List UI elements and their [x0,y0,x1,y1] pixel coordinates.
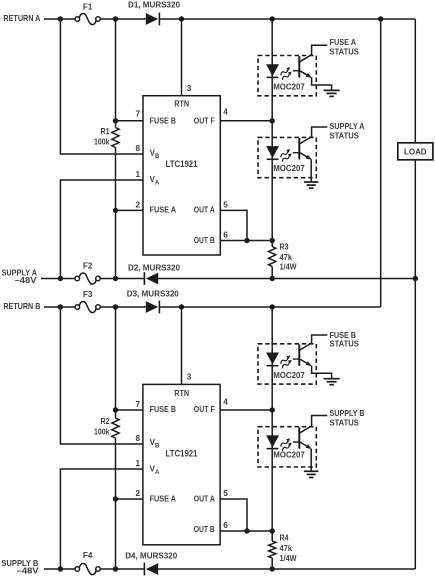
node SUPPLY B label [1,559,39,576]
resistor R4 [269,534,297,563]
junction dots on SUPPLY B rail [58,566,275,571]
light coupling arrows [279,148,293,162]
svg-text:MOC207: MOC207 [273,82,305,91]
svg-text:FUSE A: FUSE A [150,205,177,214]
optocoupler U3 MOC207 [258,121,365,188]
diode D4 MURS320 [125,551,177,575]
status output label FUSE B [330,330,360,349]
wire pin 6 OUT B (U4) [220,530,272,532]
wire RTN pin 3 (U4) [181,307,183,384]
wire SUPPLY A rail [41,278,415,280]
phototransistor [293,45,328,77]
svg-text:100k: 100k [94,137,110,146]
LED [266,353,279,366]
wire pin 5 OUT A jog (U4) [220,499,247,531]
emitter wire [312,366,332,379]
svg-text:D1, MURS320: D1, MURS320 [128,1,180,10]
svg-text:FUSE B: FUSE B [150,116,177,125]
svg-text:MOC207: MOC207 [273,451,305,460]
svg-text:D3, MURS320: D3, MURS320 [127,289,179,298]
svg-text:6: 6 [223,521,228,530]
svg-text:1/4W: 1/4W [280,263,297,272]
resistor R1 [94,127,119,148]
svg-text:D4, MURS320: D4, MURS320 [125,551,177,560]
svg-text:VB: VB [150,149,160,161]
svg-text:VA: VA [150,175,160,187]
svg-text:1: 1 [135,170,140,179]
svg-text:LOAD: LOAD [404,147,427,156]
emitter wire [310,449,312,471]
status output label SUPPLY B [330,408,365,428]
wire VA (pin 1) of U4 to SUPPLY B [60,469,142,569]
phototransistor [293,416,328,449]
status output label FUSE A [330,37,360,57]
junction OUT F node [270,118,275,123]
svg-text:OUT B: OUT B [194,525,215,534]
svg-text:SUPPLY B: SUPPLY B [330,408,365,418]
svg-text:LTC1921: LTC1921 [166,448,198,458]
ground [324,379,340,385]
diode D3 MURS320 [127,289,179,313]
svg-text:OUT A: OUT A [194,495,215,504]
svg-text:VB: VB [150,438,160,450]
svg-text:RTN: RTN [174,389,189,398]
svg-text:STATUS: STATUS [330,418,360,428]
svg-text:4: 4 [223,108,228,117]
wire RETURN B to VB (pin 8) of U4 [60,307,142,444]
LED [266,146,279,159]
svg-text:RETURN A: RETURN A [3,14,40,23]
junction OUT A/OUT B tie (U4) [244,528,249,533]
wire pin 5 OUT A jog [220,210,247,240]
svg-text:RTN: RTN [174,99,189,108]
svg-text:RETURN B: RETURN B [3,302,40,311]
svg-text:5: 5 [223,489,228,498]
svg-text:8: 8 [135,434,140,443]
svg-text:4: 4 [223,398,228,407]
emitter wire [312,77,332,90]
optocoupler U5 MOC207 [258,330,359,385]
dashed package outline [258,56,316,96]
wire pin 4 OUT F (U4) [220,409,272,411]
svg-text:3: 3 [187,373,192,382]
svg-text:R3: R3 [280,243,289,252]
svg-text:R4: R4 [280,534,289,543]
resistor R2 [94,417,119,438]
wire RETURN A to VB (pin 8) [60,19,143,154]
svg-text:FUSE A: FUSE A [150,495,177,504]
wire pin 2 FUSE A [116,209,144,211]
resistor R3 [269,243,297,272]
ground [304,471,319,477]
svg-text:2: 2 [135,200,140,209]
svg-text:2: 2 [135,489,140,498]
svg-text:FUSE A: FUSE A [330,37,357,47]
optocoupler U6 MOC207 [258,408,365,478]
wire RETURN A rail [44,18,415,20]
fuse F1 [75,3,100,25]
svg-text:47k: 47k [280,253,293,262]
junction OUT A/OUT B tie [244,238,249,243]
wire fuse-B sense vertical [115,19,117,279]
svg-text:7: 7 [135,110,140,119]
junction dots on RETURN A rail [58,16,384,21]
wire pin 6 OUT B [220,240,272,242]
svg-text:OUT F: OUT F [194,405,215,414]
junction pin 2 [113,208,118,213]
svg-text:R1: R1 [101,127,110,136]
wire status LED chain (bottom half) [271,307,273,569]
junction pin 7 [113,118,118,123]
phototransistor [293,127,328,159]
op-amp U1 LTC1921 [135,84,228,255]
wire pin 7 FUSE B (U4) [116,409,143,411]
ground [304,182,319,188]
wire RTN pin 3 [181,19,183,96]
status output label SUPPLY A [330,121,365,140]
junction pin 7 (U4) [113,407,118,412]
wire pin 2 FUSE A (U4) [116,498,143,500]
svg-text:OUT F: OUT F [194,116,215,125]
svg-text:3: 3 [187,84,192,93]
optocoupler U2 MOC207 [258,37,359,97]
dashed package outline [258,344,316,384]
wire pin 7 FUSE B [116,120,144,122]
svg-text:LTC1921: LTC1921 [166,159,198,169]
junction dots on SUPPLY A rail [58,276,418,281]
svg-text:F4: F4 [83,551,93,560]
wire SUPPLY B rail [44,568,415,570]
svg-text:F2: F2 [83,261,93,270]
emitter wire [310,159,312,181]
dashed package outline [258,137,316,177]
svg-text:OUT A: OUT A [194,205,215,214]
svg-text:6: 6 [223,231,228,240]
dashed package outline [258,427,316,467]
phototransistor [293,335,328,366]
node SUPPLY A label [2,269,38,285]
LED [266,64,279,77]
svg-text:1/4W: 1/4W [280,554,297,563]
svg-text:8: 8 [135,144,140,153]
svg-text:F3: F3 [83,290,93,299]
svg-text:FUSE B: FUSE B [150,405,177,414]
svg-text:F1: F1 [83,3,93,12]
wire RETURN B rail [44,306,381,308]
wire fuse-B sense vertical (bottom) [115,307,117,569]
fuse F4 [75,551,100,575]
wire VA (pin 1) to SUPPLY A [60,180,143,279]
svg-text:STATUS: STATUS [330,130,360,140]
svg-text:5: 5 [223,200,228,209]
fuse F2 [75,261,100,284]
fuse F3 [75,290,100,313]
light coupling arrows [279,66,293,80]
diode D1 MURS320 [128,1,180,26]
light coupling arrows [279,437,293,451]
svg-text:STATUS: STATUS [330,339,360,349]
wire pin 4 OUT F [220,120,272,122]
svg-text:7: 7 [135,400,140,409]
svg-text:D2, MURS320: D2, MURS320 [128,263,180,272]
wire RETURN B feed vertical [380,19,382,307]
junction OUT B node (U4) [270,528,275,533]
svg-text:100k: 100k [94,427,110,436]
junction OUT F node (U4) [270,407,275,412]
junction OUT B node [270,238,275,243]
junction pin 2 (U4) [113,496,118,501]
svg-text:R2: R2 [101,417,110,426]
svg-text:–48V: –48V [15,276,38,285]
wire load branch vertical [414,19,416,569]
diode D2 MURS320 [128,263,180,285]
svg-text:MOC207: MOC207 [273,371,305,380]
svg-text:VA: VA [150,465,160,477]
ground [324,90,340,96]
svg-text:STATUS: STATUS [330,47,360,57]
junction dots on RETURN B rail [58,304,275,309]
svg-text:MOC207: MOC207 [273,164,305,173]
light coupling arrows [279,354,293,368]
op-amp U4 LTC1921 [135,373,228,545]
svg-text:OUT B: OUT B [194,236,215,245]
LED [266,435,279,448]
svg-text:1: 1 [135,459,140,468]
wire status LED chain (top half) [271,19,273,279]
svg-text:–48V: –48V [17,567,40,576]
load block LOAD [398,143,433,160]
svg-text:47k: 47k [280,544,293,553]
